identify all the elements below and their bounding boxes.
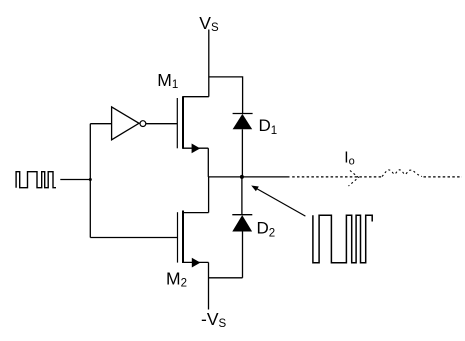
wire output dotted right section: [424, 176, 463, 178]
svg-text:-VS: -VS: [201, 309, 227, 330]
node input junction: [89, 178, 92, 181]
wire to inverter input: [90, 123, 111, 125]
annotation arrow to output node: [251, 186, 305, 217]
current direction dashed arrow: [349, 171, 359, 187]
svg-text:D2: D2: [257, 219, 276, 240]
wire Vs stem to M1 drain: [208, 30, 210, 97]
wire bottom rail: [209, 277, 243, 279]
wire output node to D2 cathode: [241, 177, 243, 215]
transistor M2: [178, 211, 209, 268]
wire Vs branch to D1: [209, 77, 243, 114]
wire output node row: [208, 176, 289, 178]
wire M2 source to -Vs: [208, 262, 210, 309]
svg-text:M1: M1: [157, 70, 178, 91]
wire output dotted left section: [292, 176, 382, 178]
svg-text:Io: Io: [344, 150, 354, 168]
wire M2 gate: [90, 237, 177, 239]
wire junction riser: [89, 124, 91, 238]
wire M2 drain riser: [208, 177, 210, 213]
inverter U1: [112, 107, 146, 140]
wire M1 source riser: [207, 148, 209, 177]
diode D1: [233, 114, 253, 130]
output current ripple sketch: [382, 170, 422, 177]
transistor M1: [177, 96, 209, 153]
wire input to junction: [60, 179, 90, 181]
diode D2: [232, 215, 252, 232]
node output junction: [240, 175, 244, 179]
svg-text:M2: M2: [166, 269, 187, 290]
svg-text:D1: D1: [259, 116, 278, 137]
wire D2 anode to bottom rail: [242, 232, 244, 278]
wire D1 anode to output node: [241, 129, 243, 177]
wire inverter output to M1 gate: [146, 123, 177, 125]
input waveform icon: [16, 172, 56, 188]
output waveform icon: [313, 215, 372, 262]
